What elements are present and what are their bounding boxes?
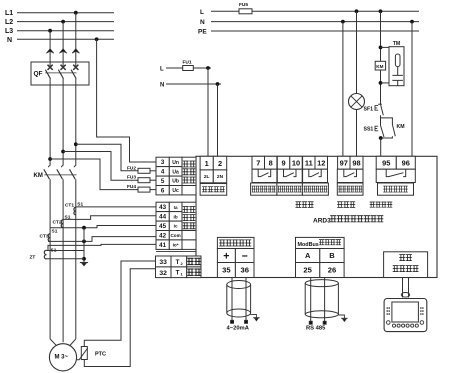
fuse FU5 [239, 9, 252, 14]
label protection-relay box [378, 183, 414, 195]
svg-text:26: 26 [328, 266, 336, 275]
svg-text:FU1: FU1 [183, 60, 192, 66]
svg-text:ModBus: ModBus [298, 242, 319, 248]
svg-text:QF: QF [34, 71, 43, 78]
svg-text:CT2: CT2 [52, 219, 61, 225]
wire phase C KM to motor [49, 179, 51, 339]
wire ZT to terminal 41 [48, 244, 156, 250]
label voltage signal input [183, 161, 196, 183]
label programmable 2 [337, 202, 355, 208]
label current signal input [183, 207, 196, 229]
terminal block temperature 33-32 [156, 256, 202, 278]
display cable sleeve [401, 293, 410, 298]
wire display cable right [408, 278, 410, 298]
wire SF1 to SS1 [380, 115, 382, 125]
contactor KM pole 2 [62, 166, 64, 168]
svg-text:4~20mA: 4~20mA [227, 326, 250, 332]
wire phase A QF to KM [75, 79, 77, 166]
svg-text:ZT: ZT [30, 255, 36, 261]
wire terminal 33 to PTC [84, 261, 156, 347]
junction common at ZT [82, 257, 86, 261]
wire L to KM coil [380, 11, 382, 61]
wire L to terminal 1 [207, 68, 209, 156]
junction common at wire42 [82, 240, 86, 244]
wire CT3 S1 to terminal 45 [50, 226, 156, 228]
svg-text:36: 36 [240, 266, 248, 275]
label module interface [393, 266, 419, 272]
wire phase A to FU2 [76, 144, 138, 171]
terminal pin analog + [231, 320, 234, 323]
display module screen [392, 302, 419, 322]
junction common at wire45 [82, 226, 86, 230]
pushbutton SS1 contact [381, 125, 385, 137]
svg-text:+: + [223, 250, 229, 262]
protector ARD3 outline box [196, 156, 437, 277]
svg-text:Ic: Ic [174, 224, 178, 229]
svg-text:L: L [160, 67, 164, 73]
wire analog - lead [245, 278, 247, 321]
svg-text:A: A [305, 251, 311, 260]
svg-text:2: 2 [218, 159, 222, 168]
svg-text:M 3~: M 3~ [55, 354, 69, 360]
disconnect arrow pole 1 [46, 49, 53, 53]
breaker QF pole 3 blade [71, 70, 76, 79]
junction TM bottom [379, 81, 383, 85]
junction TM top [379, 46, 383, 50]
fuse FU3 [138, 178, 150, 183]
wire ZT lower [47, 258, 85, 260]
svg-text:43: 43 [159, 204, 166, 211]
junction L2 tap [61, 20, 65, 24]
timer TM contact bars [392, 67, 403, 86]
label output-relay-3 box [302, 183, 328, 195]
display module interface box [384, 252, 428, 278]
junction SS1 bottom [379, 136, 383, 140]
wire analog + lead [231, 278, 233, 321]
terminal block 97-98 output relay 4 [337, 156, 363, 182]
wire CT1 S1 to terminal 43 [76, 206, 156, 208]
junction N stub [216, 82, 220, 86]
junction L3 tap [48, 29, 52, 33]
timer TM wire bottom [381, 82, 390, 84]
label output-relay-2 box [277, 183, 303, 195]
svg-text:Un: Un [172, 160, 179, 166]
wire L to lamp [356, 11, 358, 93]
svg-text:25: 25 [303, 266, 312, 275]
svg-text:N: N [7, 37, 12, 44]
terminal block 95-96 protection relay [376, 156, 415, 182]
svg-text:L3: L3 [5, 28, 13, 35]
thermistor PTC diagonal [77, 348, 88, 360]
svg-text:L: L [200, 9, 204, 16]
display bottom buttons [392, 324, 418, 327]
wire lamp to terminal 98 [356, 110, 358, 157]
svg-text:2L: 2L [204, 174, 210, 180]
svg-text:TM: TM [393, 41, 401, 47]
wire common to terminal 42 [48, 237, 156, 242]
junction N tap [95, 37, 99, 41]
display corner button left [387, 321, 391, 325]
label output-relay-1 box [251, 183, 277, 195]
svg-text:B: B [329, 251, 335, 260]
pushbutton SF1 actuator [375, 106, 378, 111]
terminal block 9-10 output relay 2 [277, 156, 302, 182]
wire RS485 A lead [310, 278, 312, 322]
wire L2 rail [17, 21, 114, 23]
wire N control rail [211, 21, 419, 23]
CT CT3 winding [48, 234, 50, 242]
svg-text:8: 8 [269, 158, 273, 167]
label output-relay-4 box [337, 183, 363, 195]
svg-text:T: T [176, 270, 180, 277]
ground analog shield [251, 314, 260, 321]
display module body [384, 299, 427, 332]
contactor coil KM [375, 61, 385, 70]
label ARD3 title [313, 216, 383, 225]
wire phase C to FU4 [50, 159, 138, 190]
wire phase B QF to KM [62, 79, 64, 166]
junction L stub [206, 66, 210, 70]
label display [399, 255, 412, 261]
junction L to KM coil branch [379, 9, 383, 13]
svg-text:ARD3: ARD3 [313, 218, 331, 225]
wire display cable left [402, 278, 404, 298]
svg-text:PE: PE [198, 29, 207, 36]
terminal block voltage inputs 3-6 [156, 157, 196, 195]
disconnect arrow pole 2 [59, 49, 66, 53]
label ModBus title [298, 240, 342, 248]
wire N to terminal 3 (Un) [97, 39, 156, 162]
breaker QF box [31, 62, 89, 85]
svg-text:41: 41 [159, 242, 166, 249]
svg-text:7: 7 [256, 158, 260, 167]
breaker QF pole 3 contact X [73, 65, 78, 70]
ground RS485 shield [338, 315, 347, 322]
wire L control rail [211, 10, 239, 12]
wire CT2 S1 to terminal 44 [63, 216, 156, 220]
timer TM wire top [381, 46, 390, 48]
svg-text:Uc: Uc [172, 188, 179, 194]
breaker QF pole 1 contact X [48, 65, 53, 70]
svg-text:KM: KM [397, 124, 405, 130]
svg-text:−: − [242, 250, 248, 262]
display corner button right [420, 321, 424, 325]
breaker QF pole 2 contact X [61, 65, 66, 70]
junction N to t97 [341, 20, 345, 24]
terminal pin analog - [245, 320, 248, 323]
wire ZT upper [47, 250, 85, 252]
lamp HL indicator [349, 94, 365, 110]
contactor KM linkage bar [44, 174, 76, 176]
label analog output title [219, 240, 251, 246]
svg-text:4: 4 [161, 169, 165, 176]
display left buttons [386, 307, 390, 315]
svg-text:95: 95 [382, 158, 390, 167]
svg-text:KM: KM [376, 64, 383, 69]
svg-text:FU5: FU5 [239, 2, 248, 8]
CT CT2 winding [61, 220, 63, 228]
cable shield 4-20mA [227, 281, 251, 318]
label temperature detect [187, 258, 200, 275]
svg-text:N: N [200, 19, 205, 26]
contactor KM pole 3 [74, 166, 76, 168]
label main relay [370, 202, 393, 207]
svg-text:FU4: FU4 [127, 184, 136, 190]
svg-text:9: 9 [281, 158, 285, 167]
svg-text:45: 45 [159, 223, 166, 230]
wire N rail [17, 38, 114, 40]
svg-text:Ua: Ua [172, 169, 179, 175]
breaker QF linkage bar [45, 72, 76, 74]
svg-text:35: 35 [222, 266, 231, 275]
svg-text:98: 98 [352, 158, 360, 167]
junction phase B voltage tap [61, 150, 65, 154]
fuse FU1 [183, 66, 194, 71]
svg-text:FU3: FU3 [127, 175, 136, 181]
terminal pin RS485 A [309, 321, 312, 324]
svg-text:Io*: Io* [173, 243, 179, 248]
motor M1 circle [49, 344, 76, 371]
svg-text:L1: L1 [5, 10, 13, 17]
terminal pin RS485 B [323, 321, 326, 324]
current block lower line [156, 250, 196, 252]
wire L1 drop to QF [75, 13, 77, 67]
junction L1 tap [74, 11, 78, 15]
timer TM solenoid capsule [395, 54, 400, 67]
pushbutton SF1 contact [381, 104, 384, 115]
svg-text:97: 97 [340, 158, 348, 167]
svg-text:10: 10 [292, 158, 300, 167]
wire L2 drop to QF [62, 22, 64, 67]
wire RS485 B lead [324, 278, 326, 322]
pushbutton SS1 actuator [375, 126, 378, 131]
contact KM auxiliary branch [381, 118, 393, 125]
svg-text:33: 33 [159, 259, 167, 266]
svg-text:PTC: PTC [95, 352, 106, 358]
fuse FU4 [138, 187, 150, 192]
svg-text:2N: 2N [217, 174, 224, 180]
svg-text:CT3: CT3 [39, 234, 48, 240]
wire CT common line [83, 228, 85, 263]
analog output block [217, 237, 254, 277]
junction phase C voltage tap [48, 157, 52, 161]
timer TM box [389, 47, 404, 86]
ground CT common [80, 262, 88, 264]
svg-text:Ia: Ia [174, 205, 178, 210]
terminal block 11-12 output relay 3 [303, 156, 328, 182]
svg-text:Ib: Ib [174, 214, 178, 219]
svg-text:42: 42 [159, 233, 166, 240]
svg-text:T: T [176, 259, 180, 266]
svg-text:44: 44 [159, 214, 166, 221]
svg-text:RS 485: RS 485 [306, 326, 326, 332]
wire terminal 32 to PTC [84, 269, 156, 367]
svg-text:CT1: CT1 [65, 203, 74, 209]
svg-text:1: 1 [205, 159, 209, 168]
wire N stub [166, 83, 221, 85]
CT CT1 winding [74, 207, 76, 215]
wire phase C QF to KM [49, 79, 51, 166]
svg-text:6: 6 [161, 188, 165, 195]
svg-text:N: N [160, 82, 164, 88]
svg-text:FU2: FU2 [127, 165, 136, 171]
thermistor PTC body [81, 347, 87, 360]
svg-text:11: 11 [305, 158, 313, 167]
wire L3 drop to QF [49, 31, 51, 67]
svg-text:12: 12 [317, 158, 325, 167]
breaker QF pole 2 blade [58, 70, 63, 79]
wire motor funnel right [70, 339, 76, 346]
junction N to t96 [410, 20, 414, 24]
wire PE rail [211, 30, 419, 32]
terminal block current inputs 43-41 [156, 202, 196, 249]
wire N to terminal 96 [411, 22, 413, 157]
contactor KM pole 1 [49, 166, 51, 168]
svg-text:Ub: Ub [172, 179, 179, 185]
svg-text:3: 3 [161, 159, 165, 166]
terminal block 7-8 output relay 1 [252, 156, 277, 182]
svg-text:SS1: SS1 [364, 127, 374, 133]
label programmable 1 [296, 202, 314, 208]
wire L stub [166, 67, 183, 69]
wire phase B KM to motor [62, 179, 64, 342]
display right buttons [420, 307, 424, 315]
disconnect arrow pole 3 [72, 49, 79, 53]
wire motor funnel left [50, 339, 56, 346]
wire N to terminal 2 [217, 84, 219, 156]
wire N to terminal 97 [342, 22, 344, 157]
modbus block [296, 237, 345, 277]
svg-text:L2: L2 [5, 19, 13, 26]
svg-text:S1: S1 [52, 228, 58, 234]
fuse FU2 [138, 168, 150, 173]
wire phase A KM to motor [75, 179, 77, 339]
breaker QF pole 1 blade [45, 70, 50, 79]
svg-text:96: 96 [402, 158, 410, 167]
wire L1 rail [17, 12, 114, 14]
svg-text:SF1: SF1 [364, 107, 374, 113]
junction phase A voltage tap [74, 142, 78, 146]
wire phase B to FU3 [63, 152, 138, 181]
label power-input box [200, 184, 227, 196]
svg-text:5: 5 [161, 178, 165, 185]
CT ZT winding [44, 250, 46, 259]
svg-text:Com: Com [170, 233, 180, 238]
wire L3 rail [17, 30, 114, 32]
wire SS1 to terminal 95 [380, 138, 382, 156]
junction L to lamp [355, 9, 359, 13]
svg-text:32: 32 [159, 270, 167, 277]
wire KM coil to SF1 [380, 70, 382, 104]
svg-text:KM: KM [34, 173, 43, 179]
cable shield RS485 [305, 280, 338, 318]
terminal block 1-2 power input [200, 156, 227, 182]
